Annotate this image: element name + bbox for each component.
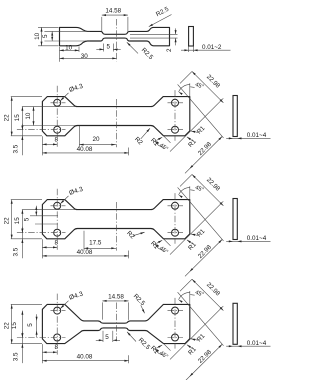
leader to 45 deg label (strap 2) xyxy=(190,86,194,89)
svg-text:0.01~4: 0.01~4 xyxy=(247,340,267,347)
svg-text:40.08: 40.08 xyxy=(77,249,93,256)
strap 4 right pad top hole xyxy=(172,307,179,314)
svg-text:22: 22 xyxy=(3,114,10,122)
dim 22 (strap 3 pad width) xyxy=(11,199,42,201)
strap 4 outline (dog-bone strip) xyxy=(42,304,189,343)
hole diameter label Ø4.3 (strap 2) xyxy=(60,93,68,101)
strap 3 diagonal extension xyxy=(164,239,171,246)
strap 2 extension line for upper diagonal dim xyxy=(170,98,223,151)
strap 3 hole centerline h2 xyxy=(17,232,66,234)
strap 2 left pad bottom hole xyxy=(54,126,61,133)
strap 4 diagonal extension xyxy=(164,344,171,351)
dim 3.5 (strap 2) xyxy=(21,124,23,156)
svg-text:5: 5 xyxy=(24,217,31,221)
specimen 1 vertical centerline xyxy=(116,19,118,62)
strap 4 right pad bottom hole xyxy=(172,334,179,341)
dim 22.98 (strap 3 lower diagonal) xyxy=(190,239,223,271)
leader to 45 deg label (strap 4) xyxy=(190,294,194,297)
strap 2 outline xyxy=(42,97,189,136)
strap 4 left pad top hole xyxy=(54,307,61,314)
dim 40.08 (strap 2 length) xyxy=(128,148,130,156)
strap 4 right hole centerlines horizontal xyxy=(168,310,184,312)
dim 22.98 (strap 2 lower diagonal) xyxy=(190,136,223,168)
dim 0.01~4 (strap 3 thickness) xyxy=(226,240,270,242)
strap 4 right hole centerline vertical xyxy=(174,298,176,349)
svg-text:40.08: 40.08 xyxy=(77,146,93,153)
strap 4 side view (thickness) xyxy=(233,303,237,344)
svg-text:15: 15 xyxy=(14,217,21,225)
svg-text:0.01~2: 0.01~2 xyxy=(202,44,222,51)
angle label 45 deg (strap 2 upper) xyxy=(189,83,191,96)
svg-text:0.01~4: 0.01~4 xyxy=(247,235,267,242)
radius label R1 (strap 4 diagonal) xyxy=(156,345,162,348)
strap 2 right hole centerline vertical xyxy=(174,90,176,141)
dim 3.5 (strap 3) xyxy=(21,227,23,259)
dim 20 (strap 2) xyxy=(78,126,80,147)
svg-text:5: 5 xyxy=(42,34,49,38)
svg-text:22: 22 xyxy=(3,322,10,330)
strap 3 side view (thickness) xyxy=(233,199,237,240)
strap 4 extension line for lower diagonal dim xyxy=(178,292,224,346)
svg-text:0.01~4: 0.01~4 xyxy=(247,132,267,139)
svg-text:2: 2 xyxy=(166,48,173,52)
radius label R1 (strap 2 diagonal) xyxy=(156,137,162,140)
svg-text:15: 15 xyxy=(14,114,21,122)
svg-text:3.5: 3.5 xyxy=(13,247,20,256)
svg-text:5: 5 xyxy=(105,334,109,341)
angle label 45 deg (strap 3 upper) xyxy=(189,186,191,199)
dim 22.98 (strap 4 upper diagonal) xyxy=(192,279,223,310)
svg-text:10: 10 xyxy=(34,32,41,40)
svg-text:15: 15 xyxy=(11,322,18,330)
dim 0.01~4 (strap 2 thickness) xyxy=(226,137,270,139)
radius label R1 (strap 4 right chamfer) xyxy=(191,339,198,340)
svg-text:3.5: 3.5 xyxy=(13,352,20,361)
radius label R2.5 (specimen 1 top fillet) xyxy=(149,15,172,27)
dim 10 (strap 2 strip width) xyxy=(22,125,76,127)
dim 5 (strap 3 hole to line) xyxy=(30,215,58,217)
dim 3.5 (strap 4) xyxy=(21,332,23,364)
dim 0.01~2 (specimen 1 thickness) xyxy=(188,47,190,53)
svg-text:10: 10 xyxy=(25,112,32,120)
dim 22.98 (strap 4 lower diagonal) xyxy=(190,344,223,376)
dim 40.08 (strap 3 length) xyxy=(128,251,130,259)
strap 4 left pad bottom hole xyxy=(54,334,61,341)
dim 40.08 (strap 4 length) xyxy=(128,355,130,363)
svg-text:14.58: 14.58 xyxy=(105,8,121,15)
radius label R1 (strap 2 right chamfer) xyxy=(191,131,198,132)
strap 3 right pad bottom hole xyxy=(172,229,179,236)
radius label R2.5 (strap 4 gauge bottom fillet) xyxy=(127,332,136,342)
hole diameter label Ø4.3 (strap 4) xyxy=(60,301,68,309)
angle label 45 deg (strap 3 lower) xyxy=(155,244,164,250)
strap 2 right hole centerlines horizontal xyxy=(168,102,184,104)
strap 2 left hole centerline vertical xyxy=(56,86,58,147)
svg-text:10: 10 xyxy=(65,45,73,52)
strap 3 vertical centerline xyxy=(115,202,117,251)
dim 22.98 (strap 3 upper diagonal) xyxy=(192,174,223,205)
svg-text:8: 8 xyxy=(54,344,58,351)
strap 3 left hole centerline vertical xyxy=(56,189,58,250)
svg-text:22: 22 xyxy=(3,217,10,225)
strap 3 reference line xyxy=(35,223,58,225)
strap 2 hole centerline h2 xyxy=(17,129,66,131)
strap 3 outline xyxy=(42,200,189,239)
dim 15 (strap 3) xyxy=(22,209,76,211)
hole diameter label Ø4.3 (strap 3) xyxy=(60,196,68,204)
strap 4 vertical centerline xyxy=(116,303,118,342)
dim 0.01~4 (strap 4 thickness) xyxy=(226,345,270,347)
dim 30 (specimen 1 half length) xyxy=(60,57,117,59)
strap 2 side view (thickness) xyxy=(233,96,237,137)
svg-text:5: 5 xyxy=(27,323,34,327)
radius label R1 (strap 4 bottom chamfer) xyxy=(187,345,192,348)
strap 3 extension line for upper diagonal dim xyxy=(170,201,223,254)
strap 3 left pad bottom hole xyxy=(54,229,61,236)
strap 3 right hole centerlines horizontal xyxy=(168,205,184,207)
dim 15 (strap 2) xyxy=(22,106,76,108)
radius label R1 (strap 2 bottom chamfer) xyxy=(187,137,192,140)
specimen 1 side view (thickness) xyxy=(189,27,194,47)
svg-text:8: 8 xyxy=(54,239,58,246)
strap 3 right hole centerline vertical xyxy=(174,193,176,244)
dim 5 (specimen 1 shoulder width) xyxy=(44,30,90,32)
dim 8 (strap 3 hole from edge) xyxy=(41,239,43,258)
svg-text:8: 8 xyxy=(54,136,58,143)
strap 4 hole centerline h2 xyxy=(17,337,66,339)
strap 4 extension line for upper diagonal dim xyxy=(170,306,223,359)
strap 3 left pad top hole xyxy=(54,202,61,209)
strap 2 left pad top hole xyxy=(54,99,61,106)
radius label R2 (strap 3 strip fillet) xyxy=(133,232,144,236)
svg-text:3.5: 3.5 xyxy=(13,144,20,153)
radius label R2.5 (specimen 1 gauge fillet) xyxy=(127,42,138,53)
svg-text:30: 30 xyxy=(81,53,89,60)
dim 5 (specimen 1 gauge half) xyxy=(103,44,105,52)
dim 22.98 (strap 2 upper diagonal) xyxy=(192,71,223,102)
svg-text:17.5: 17.5 xyxy=(89,239,102,246)
svg-text:40.08: 40.08 xyxy=(77,354,93,361)
leader to 45 deg label (strap 3) xyxy=(190,189,194,192)
strap 2 diagonal extension xyxy=(164,136,171,143)
strap 2 vertical centerline xyxy=(115,99,117,147)
angle label 45 deg (strap 4 lower) xyxy=(155,349,164,355)
svg-text:14.58: 14.58 xyxy=(108,293,124,300)
dim 17.5 (strap 3) xyxy=(83,231,85,251)
dim 8 (strap 2 hole from edge) xyxy=(41,136,43,155)
strap 4 left hole centerline vertical xyxy=(56,294,58,355)
dim 14.58 (strap 4 gauge length) xyxy=(101,302,103,319)
radius label R2.5 (strap 4 gauge top fillet) xyxy=(141,305,145,313)
svg-text:5: 5 xyxy=(107,44,111,51)
strap 2 right pad bottom hole xyxy=(172,126,179,133)
strap 3 right pad top hole xyxy=(172,202,179,209)
angle label 45 deg (strap 4 upper) xyxy=(189,291,191,304)
strap 2 hole centerline h1 xyxy=(51,102,66,104)
dim 5 (strap 4 gauge) xyxy=(102,331,104,342)
specimen 1 outline xyxy=(60,27,170,45)
dim 14.58 (specimen 1 gauge length) xyxy=(101,17,103,32)
dim 10 (specimen 1 grip length) xyxy=(59,47,61,62)
radius label R1 (strap 3 diagonal) xyxy=(156,240,162,243)
dim 8 (strap 4 hole from edge) xyxy=(41,344,43,363)
radius label R1 (strap 3 right chamfer) xyxy=(191,234,198,235)
strap 4 hole centerline h1 xyxy=(51,310,66,312)
strap 3 hole centerline h1 xyxy=(51,205,66,207)
svg-text:20: 20 xyxy=(92,136,100,143)
dim 15 (strap 4) xyxy=(21,311,23,338)
strap 2 extension line for lower diagonal dim xyxy=(178,84,224,137)
dim 2 (specimen 1 gauge width) xyxy=(130,33,178,35)
dim 22 (strap 2 pad width) xyxy=(11,96,42,98)
dim 5 (strap 4 strip) xyxy=(36,314,38,337)
dim 10 (specimen 1 grip width) xyxy=(38,26,59,28)
radius label R1 (strap 3 bottom chamfer) xyxy=(187,240,192,243)
strap 2 right pad top hole xyxy=(172,99,179,106)
angle label 45 deg (strap 2 lower) xyxy=(155,141,164,147)
strap 3 extension line for lower diagonal dim xyxy=(178,187,224,241)
radius label R2 (strap 2 strip fillet) xyxy=(141,128,150,139)
dim 22 (strap 4 pad width) xyxy=(11,303,42,305)
